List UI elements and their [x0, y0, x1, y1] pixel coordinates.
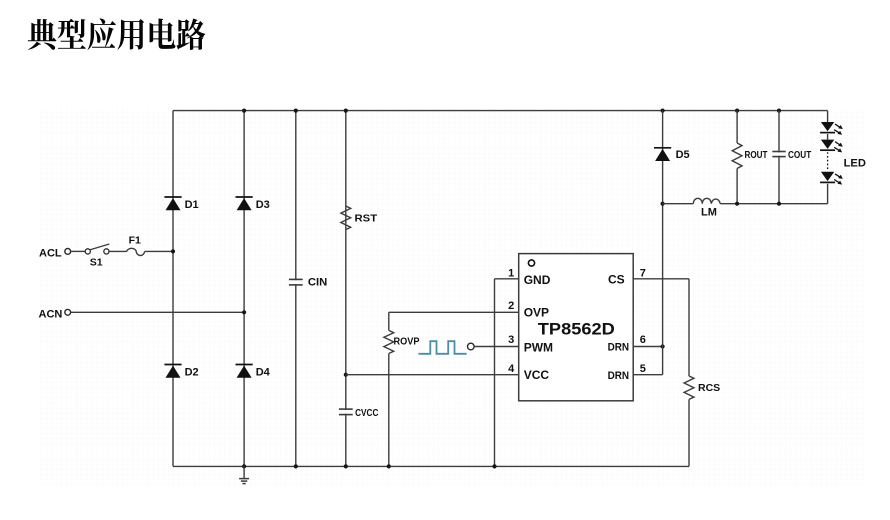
ground: [239, 466, 249, 483]
svg-text:S1: S1: [90, 257, 103, 269]
wire D1/D2 branch: [172, 111, 174, 467]
svg-text:5: 5: [640, 363, 646, 375]
capacitor CVCC: [339, 409, 353, 415]
pin-1 marker: [528, 260, 534, 266]
wire switch to fuse: [109, 250, 127, 252]
svg-text:2: 2: [508, 300, 514, 312]
wire LM to LED return: [720, 203, 827, 205]
svg-text:ACN: ACN: [39, 308, 63, 320]
LED LED1: [820, 122, 843, 135]
resistor ROUT: [732, 143, 742, 169]
terminal PWM input: [468, 343, 475, 350]
wire CS down to RCS: [688, 279, 690, 376]
wire OVP to ROVP: [388, 312, 390, 330]
svg-text:PWM: PWM: [524, 341, 553, 355]
wire fuse to bridge: [145, 250, 173, 252]
diode D4: [236, 365, 253, 378]
wire ROVP to ground rail: [388, 354, 390, 467]
terminal ACL: [65, 249, 71, 255]
junction GND bus-ground rail: [492, 464, 496, 468]
capacitor COUT: [772, 152, 785, 157]
svg-text:LED: LED: [844, 157, 866, 169]
junction top rail / COUT: [777, 109, 781, 113]
svg-text:D1: D1: [185, 199, 199, 211]
dotted wire LED string: [827, 152, 829, 170]
resistor RCS: [684, 376, 694, 399]
svg-text:TP8562D: TP8562D: [538, 321, 615, 339]
wire ACN to bridge: [71, 311, 244, 313]
inductor LM: [663, 203, 694, 205]
svg-text:CVCC: CVCC: [355, 407, 379, 419]
wire COUT branch: [778, 111, 780, 204]
svg-text:6: 6: [640, 334, 646, 346]
wire D3/D4 branch: [243, 111, 245, 467]
fuse F1: [127, 248, 145, 255]
PWM waveform: [419, 341, 467, 354]
junction ground-symbol node: [242, 464, 246, 468]
LED LED3: [820, 172, 843, 185]
junction top rail / RST branch: [344, 109, 348, 113]
junction D5/LM node: [661, 202, 665, 206]
wire PWM to pin 3: [474, 346, 519, 348]
junction CVCC-ground: [344, 464, 348, 468]
wire OVP pin 2: [389, 311, 519, 313]
wire VCC to pin 4: [346, 374, 519, 376]
wire ROUT top: [736, 111, 738, 143]
terminal ACN: [65, 309, 71, 315]
svg-text:7: 7: [640, 268, 646, 280]
svg-text:RCS: RCS: [698, 382, 720, 394]
junction CIN-ground: [294, 464, 298, 468]
diode D3: [236, 197, 253, 210]
svg-text:CS: CS: [608, 272, 625, 286]
junction top rail / CIN branch: [294, 109, 298, 113]
wire pin 1 GND stub: [495, 278, 519, 280]
wire ROUT bottom: [736, 169, 738, 204]
svg-text:CIN: CIN: [308, 276, 327, 288]
svg-text:F1: F1: [129, 235, 141, 247]
svg-text:3: 3: [508, 334, 514, 346]
junction VCC node: [344, 373, 348, 377]
wire DRN up to LM node: [662, 204, 664, 375]
top power rail: [173, 110, 828, 112]
capacitor CIN: [289, 279, 303, 285]
svg-text:D4: D4: [256, 366, 271, 378]
svg-text:DRN: DRN: [608, 341, 630, 353]
switch S1: [85, 244, 109, 254]
title 典型应用电路: [28, 18, 206, 50]
resistor ROVP: [384, 330, 394, 353]
svg-text:COUT: COUT: [788, 149, 812, 161]
wire RCS to ground rail: [688, 399, 690, 466]
wire CS pin 7: [633, 278, 689, 280]
svg-text:D3: D3: [256, 199, 270, 211]
svg-text:VCC: VCC: [524, 368, 550, 382]
svg-text:ROUT: ROUT: [745, 149, 768, 161]
resistor RST: [341, 206, 351, 230]
junction DRN node: [661, 344, 665, 348]
junction COUT/LM wire: [777, 202, 781, 206]
wire CIN branch: [295, 111, 297, 467]
junction ROUT/LM wire: [735, 202, 739, 206]
junction ACL-bridge: [171, 249, 175, 253]
LED LED2: [820, 140, 843, 153]
op-amp / controller U1 TP8562D: [519, 254, 634, 401]
junction ROVP-ground: [387, 464, 391, 468]
svg-text:LM: LM: [701, 207, 717, 219]
wire ACL to switch: [71, 250, 86, 252]
wire RST/CVCC branch: [345, 111, 347, 467]
diode D2: [164, 365, 181, 378]
junction top rail / ROUT: [735, 109, 739, 113]
svg-text:RST: RST: [355, 212, 378, 224]
junction top rail / D5: [661, 109, 665, 113]
svg-text:GND: GND: [524, 273, 551, 287]
wire DRN pin 6: [633, 346, 662, 348]
svg-text:D5: D5: [676, 149, 690, 161]
diode D5: [654, 148, 671, 161]
wire GND bus down: [494, 279, 496, 467]
svg-text:D2: D2: [185, 366, 199, 378]
wire DRN pin 5: [633, 374, 662, 376]
svg-text:OVP: OVP: [524, 306, 549, 320]
junction ACN-bridge: [242, 310, 246, 314]
junction top rail / D3 branch: [242, 109, 246, 113]
svg-text:DRN: DRN: [608, 370, 630, 382]
svg-text:4: 4: [508, 363, 515, 375]
wire D5 branch: [662, 111, 664, 204]
diode D1: [164, 197, 181, 210]
wire LED branch: [827, 111, 829, 122]
svg-text:ROVP: ROVP: [394, 336, 420, 348]
svg-text:ACL: ACL: [39, 247, 62, 259]
bottom ground rail: [173, 465, 689, 467]
svg-text:1: 1: [508, 268, 514, 280]
